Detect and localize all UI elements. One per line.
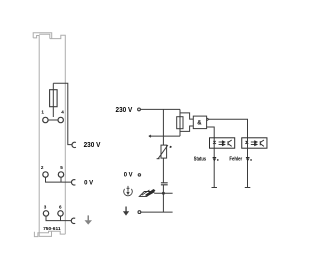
- svg-text:750-611: 750-611: [43, 226, 61, 231]
- svg-text:4: 4: [61, 109, 64, 114]
- svg-text:3: 3: [44, 204, 47, 209]
- svg-text:1: 1: [41, 109, 44, 114]
- svg-text:Status: Status: [194, 157, 206, 163]
- svg-text:0 V: 0 V: [124, 171, 133, 178]
- svg-text:230 V: 230 V: [84, 142, 101, 149]
- svg-text:6: 6: [59, 204, 62, 209]
- svg-text:2: 2: [41, 165, 44, 170]
- svg-text:Fehler: Fehler: [229, 157, 242, 163]
- svg-text:5: 5: [60, 165, 63, 170]
- svg-text:230 V: 230 V: [116, 107, 133, 114]
- svg-text:&: &: [197, 120, 202, 126]
- svg-text:0 V: 0 V: [84, 179, 94, 186]
